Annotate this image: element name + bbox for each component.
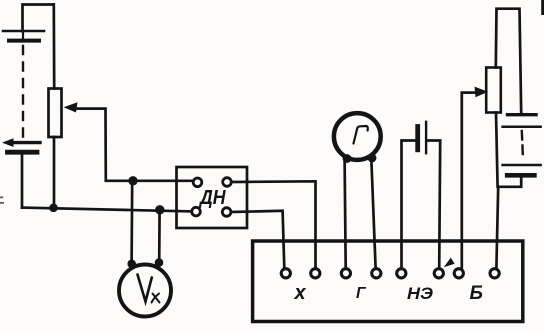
svg-text:НЭ: НЭ <box>407 285 433 303</box>
svg-text:Б: Б <box>470 283 483 304</box>
svg-text:ДН: ДН <box>198 187 226 209</box>
svg-text:Г: Г <box>356 285 367 302</box>
svg-text:x: x <box>294 282 307 304</box>
